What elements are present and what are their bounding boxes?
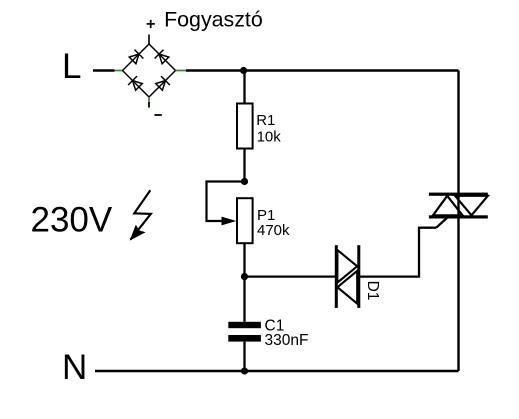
svg-text:470k: 470k: [257, 222, 290, 239]
wire node3 to diac: [245, 275, 337, 277]
plus sign: [147, 20, 155, 28]
diac D1 left bar: [335, 245, 338, 308]
wiper arrowhead: [222, 217, 237, 226]
bridge right pin (green): [176, 70, 187, 72]
svg-text:330nF: 330nF: [265, 332, 309, 349]
bridge diode top-left: [128, 50, 143, 65]
gate wire diagonal: [436, 218, 447, 228]
svg-text:D1: D1: [364, 281, 381, 301]
resistor R1: [237, 104, 253, 149]
bridge minus stub (green+black): [148, 97, 150, 102]
node junction above P1: [241, 178, 248, 185]
bridge diode bottom-right: [155, 76, 170, 91]
bridge plus stub: [148, 35, 150, 45]
svg-text:230V: 230V: [31, 201, 113, 240]
diac D1 right bar: [357, 245, 360, 308]
diac bottom triangle: [337, 271, 357, 304]
node junction top: [240, 67, 247, 74]
top wire to right side: [186, 69, 459, 71]
svg-text:R1: R1: [256, 112, 275, 129]
svg-text:L: L: [62, 47, 81, 86]
bridge diode top-right: [155, 50, 170, 65]
wire diac to gate corner: [359, 275, 418, 277]
bridge rectifier body (diamond): [123, 44, 176, 97]
svg-text:Fogyasztó: Fogyasztó: [164, 7, 263, 31]
wire P1 to node3: [243, 244, 245, 277]
triac top bar: [429, 193, 488, 196]
wire C1 to bottom: [243, 342, 245, 371]
potentiometer P1: [237, 198, 253, 243]
triac left triangle (apex up): [433, 196, 463, 216]
gate wire horizontal: [418, 227, 436, 229]
triac bottom bar: [429, 215, 488, 218]
wiper feedback wire: [207, 182, 245, 222]
right vertical wire: [457, 71, 459, 372]
capacitor C1 bottom plate: [228, 335, 261, 342]
triac right triangle (apex down): [455, 196, 488, 216]
minus sign: [155, 114, 162, 116]
lightning bolt: [130, 190, 151, 240]
wire R1 to node2: [243, 150, 245, 182]
gate wire vertical: [418, 228, 420, 278]
node junction bottom: [241, 367, 248, 374]
bridge left pin (green): [115, 70, 123, 72]
svg-text:10k: 10k: [257, 129, 282, 146]
bottom wire N: [95, 370, 459, 372]
wire node to R1: [243, 71, 245, 103]
bridge diode bottom-left: [128, 76, 143, 91]
wire L to bridge: [93, 69, 115, 71]
node junction above C1: [241, 273, 248, 280]
diac top triangle: [337, 250, 357, 283]
wire node3 to C1: [243, 277, 245, 322]
capacitor C1 top plate: [228, 322, 261, 328]
svg-text:N: N: [62, 348, 87, 387]
